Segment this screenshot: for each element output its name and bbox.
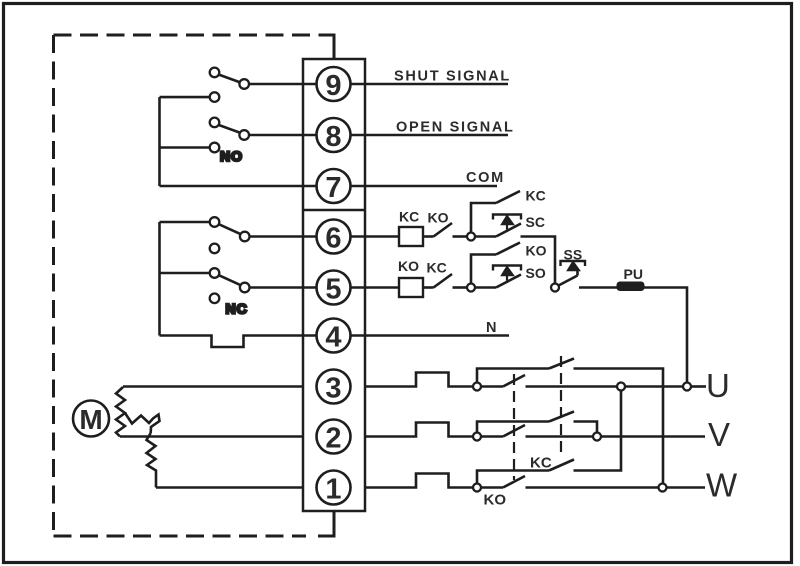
node J5b bbox=[551, 284, 559, 292]
contact KO (U-W swap upper) bbox=[477, 359, 663, 484]
limit switch S6 bbox=[210, 217, 250, 253]
svg-text:M: M bbox=[79, 404, 102, 435]
relay coil KC bbox=[399, 227, 423, 246]
terminal 8 bbox=[317, 118, 351, 152]
wire: COM line bbox=[365, 185, 497, 188]
wire: enclosure top to terminal block bbox=[320, 35, 334, 59]
motor winding zigzag lower bbox=[147, 433, 157, 488]
terminal 1 bbox=[317, 471, 351, 505]
wire: U line bbox=[526, 385, 618, 388]
svg-text:6: 6 bbox=[325, 223, 341, 255]
node J6 bbox=[467, 233, 475, 241]
limit switch S9 (shut signal) bbox=[210, 68, 249, 102]
terminal 7 bbox=[317, 169, 351, 203]
svg-text:KC: KC bbox=[399, 209, 419, 225]
contact KO (phase W) bbox=[481, 486, 503, 489]
terminal 4 bbox=[317, 319, 351, 353]
terminal 9 bbox=[317, 67, 351, 101]
wire: terminal 1 bump to node bbox=[365, 474, 473, 488]
svg-text:KC: KC bbox=[526, 188, 546, 204]
svg-text:9: 9 bbox=[325, 70, 341, 102]
svg-text:U: U bbox=[706, 367, 730, 404]
contact KC (W-U swap upper) bbox=[477, 391, 621, 484]
wire: S8 lower contact to NO bus bbox=[160, 146, 210, 149]
contact KO (aux, row 5) bbox=[471, 243, 520, 284]
wire: S5 top contact to NC bus bbox=[160, 272, 210, 275]
wire terminal 1 row bbox=[156, 486, 303, 489]
svg-text:SS: SS bbox=[564, 247, 583, 263]
terminal block bbox=[303, 59, 365, 511]
wire terminal 2 row bbox=[120, 435, 303, 438]
svg-text:KC: KC bbox=[427, 260, 447, 276]
fuse PU bbox=[618, 283, 644, 291]
contact SO (cam operated) bbox=[475, 266, 521, 288]
svg-text:5: 5 bbox=[325, 274, 341, 306]
wire: W stub bbox=[667, 486, 706, 489]
contact KC (phase U) bbox=[481, 385, 503, 388]
wire: W line bbox=[526, 486, 659, 489]
mechanical link KO dashed bbox=[560, 356, 562, 457]
contact KC (aux, row 6) bbox=[471, 191, 520, 233]
terminal 6 bbox=[317, 220, 351, 254]
svg-text:KO: KO bbox=[398, 258, 419, 274]
wire terminal 6 row bbox=[250, 235, 366, 238]
node J1 bbox=[473, 484, 481, 492]
relay coil KO bbox=[399, 278, 423, 297]
wire: S9 lower contact to NO bus bbox=[160, 96, 210, 99]
node J2b bbox=[593, 433, 601, 441]
svg-text:N: N bbox=[486, 320, 498, 336]
limit switch S8 (open signal) bbox=[210, 118, 249, 153]
motor M1 bbox=[73, 401, 109, 437]
wire: terminal block bottom to enclosure bbox=[318, 511, 334, 536]
wire terminal 3 row bbox=[123, 385, 303, 388]
mechanical link KC dashed bbox=[513, 374, 515, 480]
svg-text:COM: COM bbox=[466, 170, 505, 186]
contact SC (cam operated) bbox=[475, 215, 521, 237]
svg-text:KO: KO bbox=[428, 210, 449, 226]
wire: S6 top contact to NC bus bbox=[160, 221, 210, 224]
contact KO (phase V upper) bbox=[477, 412, 597, 433]
node J2 bbox=[473, 433, 481, 441]
svg-text:OPEN SIGNAL: OPEN SIGNAL bbox=[396, 120, 515, 136]
svg-text:4: 4 bbox=[325, 322, 341, 354]
svg-text:W: W bbox=[706, 467, 738, 504]
wire: U stub bbox=[691, 385, 706, 388]
svg-text:2: 2 bbox=[325, 423, 341, 455]
wire: V line to label bbox=[601, 435, 705, 438]
wire: SHUT SIGNAL line bbox=[365, 83, 508, 86]
motor winding zigzag middle bbox=[125, 413, 160, 433]
svg-text:SHUT SIGNAL: SHUT SIGNAL bbox=[394, 69, 511, 85]
wire terminal 4 row with notch bbox=[160, 336, 366, 348]
terminal 5 bbox=[317, 271, 351, 305]
wire: V line bbox=[526, 435, 594, 438]
wire: SC output down to node J5b bbox=[521, 237, 556, 284]
svg-text:KO: KO bbox=[526, 243, 547, 259]
wire terminal 5 row bbox=[250, 286, 366, 289]
terminal 2 bbox=[317, 420, 351, 454]
wire terminal 7 row bbox=[160, 185, 366, 188]
svg-text:NC: NC bbox=[226, 301, 248, 317]
wire: NC bus vertical bbox=[158, 222, 161, 336]
svg-text:SC: SC bbox=[526, 214, 545, 230]
wire: NO bus vertical bbox=[158, 97, 161, 186]
terminal 3 bbox=[317, 370, 351, 404]
contact KO (row 6) bbox=[423, 223, 467, 237]
wire: OPEN SIGNAL line bbox=[365, 134, 508, 137]
svg-text:KO: KO bbox=[484, 492, 507, 509]
limit switch S5 bbox=[210, 268, 250, 303]
wire terminal 8 row bbox=[249, 134, 365, 137]
svg-text:KC: KC bbox=[530, 455, 552, 472]
wire: terminal 2 bump to node bbox=[365, 423, 473, 437]
svg-text:V: V bbox=[708, 416, 730, 453]
motor winding zigzag upper bbox=[116, 387, 125, 437]
svg-text:7: 7 bbox=[325, 172, 341, 204]
wire: U line to terminal bbox=[625, 385, 683, 388]
selector switch SS bbox=[559, 261, 586, 286]
svg-text:8: 8 bbox=[325, 121, 341, 153]
node J3 bbox=[473, 383, 481, 391]
wire: N line bbox=[365, 334, 509, 337]
node W junction bbox=[659, 484, 667, 492]
contact KC (phase V) bbox=[481, 435, 503, 438]
enclosure dashed boundary bbox=[54, 35, 321, 536]
node U terminal bbox=[683, 383, 691, 391]
wire: terminal 3 bump to node bbox=[365, 373, 473, 387]
node J3b bbox=[617, 383, 625, 391]
wire: fuse to U drop bbox=[644, 288, 688, 383]
svg-text:3: 3 bbox=[325, 373, 341, 405]
contact KC (row 5) bbox=[423, 274, 467, 288]
svg-text:NO: NO bbox=[220, 148, 243, 164]
svg-text:1: 1 bbox=[325, 474, 341, 506]
wire: SS to fuse bbox=[579, 286, 618, 289]
wire terminal 9 row bbox=[249, 83, 365, 86]
svg-text:PU: PU bbox=[624, 266, 643, 282]
node J5 bbox=[467, 284, 475, 292]
svg-text:SO: SO bbox=[526, 265, 546, 281]
